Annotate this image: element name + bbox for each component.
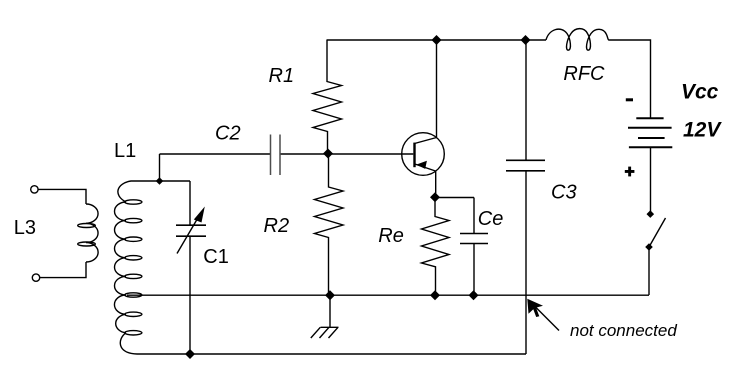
svg-text:L3: L3 xyxy=(14,217,36,239)
svg-text:Vcc: Vcc xyxy=(681,81,719,104)
svg-text:not connected: not connected xyxy=(570,321,677,340)
svg-text:RFC: RFC xyxy=(563,63,605,85)
svg-text:Ce: Ce xyxy=(478,208,504,230)
svg-text:R1: R1 xyxy=(269,65,295,87)
svg-text:C2: C2 xyxy=(215,123,241,145)
svg-text:12V: 12V xyxy=(683,119,722,142)
svg-text:C3: C3 xyxy=(551,182,577,204)
svg-text:C1: C1 xyxy=(203,246,229,268)
svg-text:Re: Re xyxy=(378,225,404,247)
svg-text:L1: L1 xyxy=(114,140,136,162)
svg-text:R2: R2 xyxy=(264,215,290,237)
